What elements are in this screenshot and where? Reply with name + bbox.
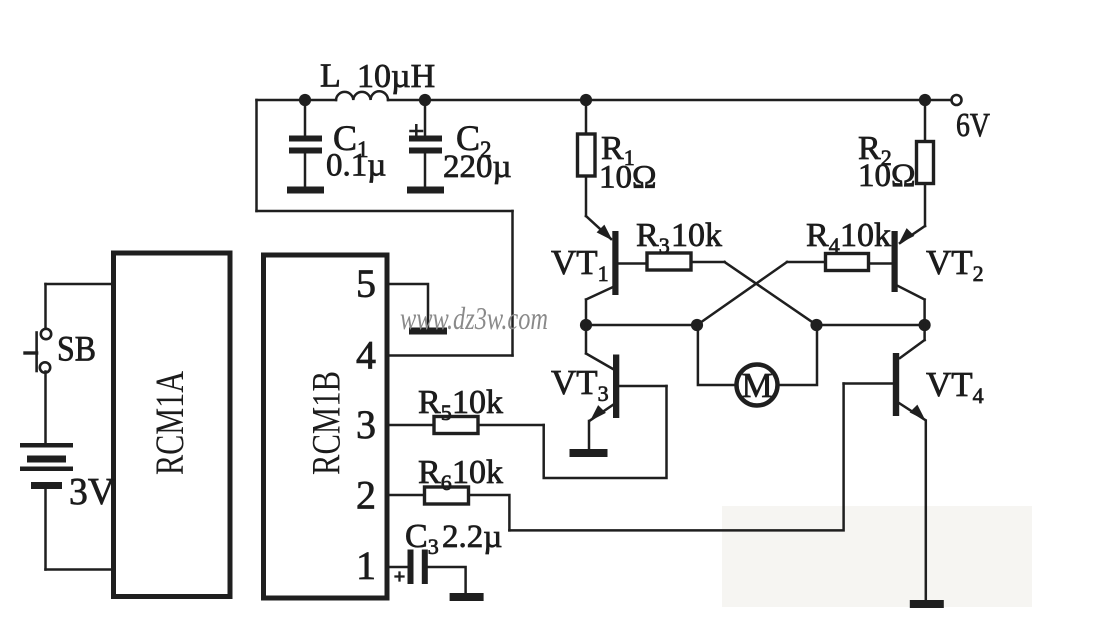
wire cross diagonal R3 to node2 bbox=[725, 262, 817, 325]
svg-text:10Ω: 10Ω bbox=[599, 160, 657, 196]
ground bar VT3 bbox=[570, 449, 608, 457]
wire mid rail node2 segment bbox=[817, 324, 925, 327]
resistor R2 top lead bbox=[924, 100, 927, 142]
svg-text:10Ω: 10Ω bbox=[858, 158, 916, 194]
transistor VT4 emitter lead bbox=[899, 403, 925, 420]
capacitor C3 polarity plus sign bbox=[396, 573, 404, 581]
IC RCM1B box bbox=[264, 255, 388, 598]
transistor VT1 emitter arrow bbox=[597, 225, 613, 241]
resistor R1 top lead bbox=[585, 100, 588, 134]
wire battery top to RCM1A bbox=[46, 283, 112, 286]
transistor VT2 base lead bbox=[869, 262, 892, 265]
svg-text:C3: C3 bbox=[405, 518, 439, 559]
6V terminal open circle bbox=[952, 95, 962, 105]
ground bar VT4 bbox=[910, 600, 944, 608]
svg-text:3V: 3V bbox=[69, 471, 116, 513]
node2 junction dot (VT2 collector) bbox=[919, 319, 931, 331]
svg-text:220µ: 220µ bbox=[443, 149, 512, 185]
svg-text:4: 4 bbox=[356, 333, 376, 378]
IC RCM1A box bbox=[114, 253, 231, 597]
svg-text:6V: 6V bbox=[956, 107, 990, 144]
resistor R4 body bbox=[826, 254, 869, 271]
capacitor C1 top lead bbox=[304, 100, 307, 136]
motor M circle bbox=[737, 365, 778, 406]
svg-text:R3: R3 bbox=[636, 217, 670, 258]
transistor VT4 collector lead bbox=[900, 325, 925, 358]
wire battery bottom to RCM1A bbox=[46, 568, 112, 571]
transistor VT1 base bar bbox=[612, 231, 618, 295]
transistor VT1 collector lead bbox=[586, 287, 613, 325]
transistor VT3 emitter to ground wire bbox=[588, 421, 591, 449]
resistor R1 body bbox=[578, 134, 596, 176]
svg-text:R4: R4 bbox=[806, 217, 840, 258]
node2 junction dot (motor right) bbox=[810, 319, 822, 331]
svg-text:L: L bbox=[320, 58, 341, 95]
motor M left branch wire bbox=[698, 325, 737, 385]
capacitor C2 plates bbox=[409, 136, 442, 142]
svg-text:RCM1B: RCM1B bbox=[304, 371, 349, 475]
capacitor C2 polarity plus sign bbox=[411, 125, 423, 136]
battery GB plate long 2 bbox=[20, 467, 73, 472]
transistor VT4 base lead bbox=[844, 382, 893, 385]
wire R4 to cross-coupling bbox=[787, 261, 826, 264]
wire filter right riser to pin 4 bbox=[511, 211, 514, 356]
svg-text:R6: R6 bbox=[418, 454, 452, 495]
light scan shading bottom right bbox=[722, 506, 1032, 607]
wire VT4 base loop from R6 bbox=[509, 384, 843, 531]
node junction dot B (C2 tap) bbox=[419, 94, 431, 106]
capacitor C1 bottom lead bbox=[304, 154, 307, 187]
wire VT3 base loop from R5 bbox=[544, 386, 667, 478]
resistor R2 bottom lead bbox=[924, 184, 927, 227]
wire SB top lead bbox=[44, 284, 47, 328]
wire battery negative down bbox=[44, 489, 47, 570]
motor M right branch wire bbox=[778, 325, 818, 385]
inductor L1 coil bbox=[336, 91, 388, 100]
svg-text:10k: 10k bbox=[671, 217, 722, 254]
wire pin 4 to riser bbox=[389, 354, 513, 357]
switch SB top contact circle bbox=[41, 329, 51, 339]
svg-text:2.2µ: 2.2µ bbox=[442, 519, 502, 555]
wire R3 to cross-coupling bbox=[691, 261, 725, 264]
svg-text:SB: SB bbox=[57, 329, 96, 369]
wire R6 output bbox=[469, 495, 510, 530]
svg-text:VT1: VT1 bbox=[551, 243, 609, 286]
transistor VT3 collector lead bbox=[586, 325, 613, 369]
svg-text:www.dz3w.com: www.dz3w.com bbox=[400, 300, 548, 336]
svg-text:VT3: VT3 bbox=[551, 363, 609, 406]
battery GB plate short 2 bbox=[31, 482, 62, 489]
wire R5 output bbox=[478, 424, 544, 427]
svg-text:R5: R5 bbox=[418, 384, 452, 425]
transistor VT1 emitter lead bbox=[586, 216, 611, 239]
transistor VT2 emitter lead bbox=[900, 226, 925, 243]
transistor VT2 collector lead bbox=[898, 286, 925, 325]
wire filter bottom rail bbox=[257, 210, 513, 213]
svg-text:RCM1A: RCM1A bbox=[147, 371, 192, 475]
svg-text:VT4: VT4 bbox=[926, 365, 984, 408]
battery GB plate long 1 bbox=[20, 443, 73, 448]
terminal bar pin 5 bbox=[409, 328, 447, 335]
terminal bar under C2 bbox=[407, 187, 444, 194]
transistor VT4 emitter to ground wire bbox=[925, 421, 928, 601]
svg-text:0.1µ: 0.1µ bbox=[326, 148, 386, 184]
battery GB plate short 1 bbox=[27, 456, 66, 463]
transistor VT2 base bar bbox=[892, 231, 898, 292]
svg-text:2: 2 bbox=[356, 473, 376, 518]
svg-text:VT2: VT2 bbox=[926, 243, 984, 286]
resistor R6 body bbox=[425, 487, 469, 504]
resistor R5 body bbox=[434, 417, 478, 434]
wire pin 1 to C3 bbox=[389, 566, 408, 569]
switch SB bottom contact circle bbox=[40, 362, 50, 372]
transistor VT4 emitter arrow bbox=[910, 405, 926, 421]
wire pin 5 stub bbox=[389, 284, 428, 328]
node1 junction dot (motor left) bbox=[691, 319, 703, 331]
wire cross diagonal R4 to node1 bbox=[697, 262, 787, 325]
wire SB to battery bbox=[44, 372, 47, 444]
capacitor C2 bottom lead bbox=[424, 154, 427, 187]
svg-text:10k: 10k bbox=[452, 384, 503, 421]
wire filter left drop bbox=[255, 100, 258, 211]
transistor VT3 emitter lead bbox=[590, 405, 614, 421]
transistor VT3 emitter arrow bbox=[590, 405, 606, 421]
resistor R3 body bbox=[647, 253, 691, 270]
node1 junction dot (VT1 collector) bbox=[580, 319, 592, 331]
transistor VT3 base lead bbox=[619, 385, 666, 388]
node junction dot D (R2 tap) bbox=[919, 94, 931, 106]
node junction dot A (C1 tap) bbox=[299, 94, 311, 106]
wire top +6V rail bbox=[257, 99, 952, 102]
wire pin 3 to R5 bbox=[389, 424, 434, 427]
switch SB plunger bar bbox=[35, 333, 38, 372]
transistor VT2 emitter arrow bbox=[899, 228, 915, 244]
transistor VT4 base bar bbox=[893, 353, 899, 416]
ground bar C3 bbox=[450, 593, 484, 601]
capacitor C2 top lead bbox=[424, 100, 427, 136]
wire mid rail node1 segment bbox=[586, 324, 697, 327]
transistor VT3 base bar bbox=[613, 355, 619, 419]
svg-text:3: 3 bbox=[356, 402, 376, 447]
resistor R1 bottom lead bbox=[585, 176, 588, 216]
capacitor C1 plates bbox=[289, 136, 322, 142]
wire C3 output bbox=[428, 567, 466, 593]
svg-text:10µH: 10µH bbox=[357, 58, 435, 95]
svg-text:5: 5 bbox=[356, 261, 376, 306]
transistor VT1 base lead bbox=[619, 262, 648, 265]
svg-text:1: 1 bbox=[356, 543, 376, 588]
capacitor C3 plates bbox=[408, 550, 414, 585]
svg-text:10k: 10k bbox=[840, 217, 891, 254]
terminal bar under C1 bbox=[287, 187, 324, 194]
wire pin 2 to R6 bbox=[389, 494, 425, 497]
switch SB plunger stem bbox=[25, 351, 37, 354]
svg-text:10k: 10k bbox=[452, 454, 503, 491]
node junction dot C (R1 tap) bbox=[580, 94, 592, 106]
resistor R2 body bbox=[917, 142, 934, 184]
svg-text:M: M bbox=[741, 366, 772, 405]
